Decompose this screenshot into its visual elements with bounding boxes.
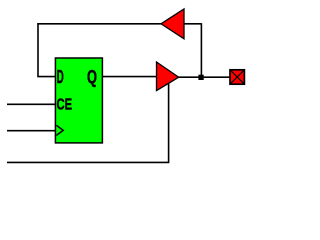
wire inverter output to corner <box>184 23 202 25</box>
wire feedback top horizontal <box>37 23 161 25</box>
svg-text:CE: CE <box>57 97 73 114</box>
wire CE input <box>7 103 56 105</box>
svg-text:D: D <box>57 66 64 87</box>
output pad X1 <box>230 70 244 84</box>
wire bottom horizontal <box>7 161 169 163</box>
wire D input <box>37 76 55 78</box>
wire bottom vertical up to buffer <box>168 78 170 162</box>
wire clock input <box>7 130 56 132</box>
buffer U3 (right-pointing triangle) <box>157 62 179 91</box>
junction node <box>198 75 203 80</box>
wire feedback left vertical <box>37 23 39 76</box>
svg-text:Q: Q <box>87 66 97 87</box>
wire buffer output to pad <box>178 76 230 78</box>
flip-flop U1 body <box>55 58 102 143</box>
clock triangle mark <box>56 125 63 135</box>
inverter U2 (left-pointing triangle) <box>161 9 184 39</box>
wire Q output to buffer <box>102 76 157 78</box>
wire corner down to junction <box>200 23 202 77</box>
